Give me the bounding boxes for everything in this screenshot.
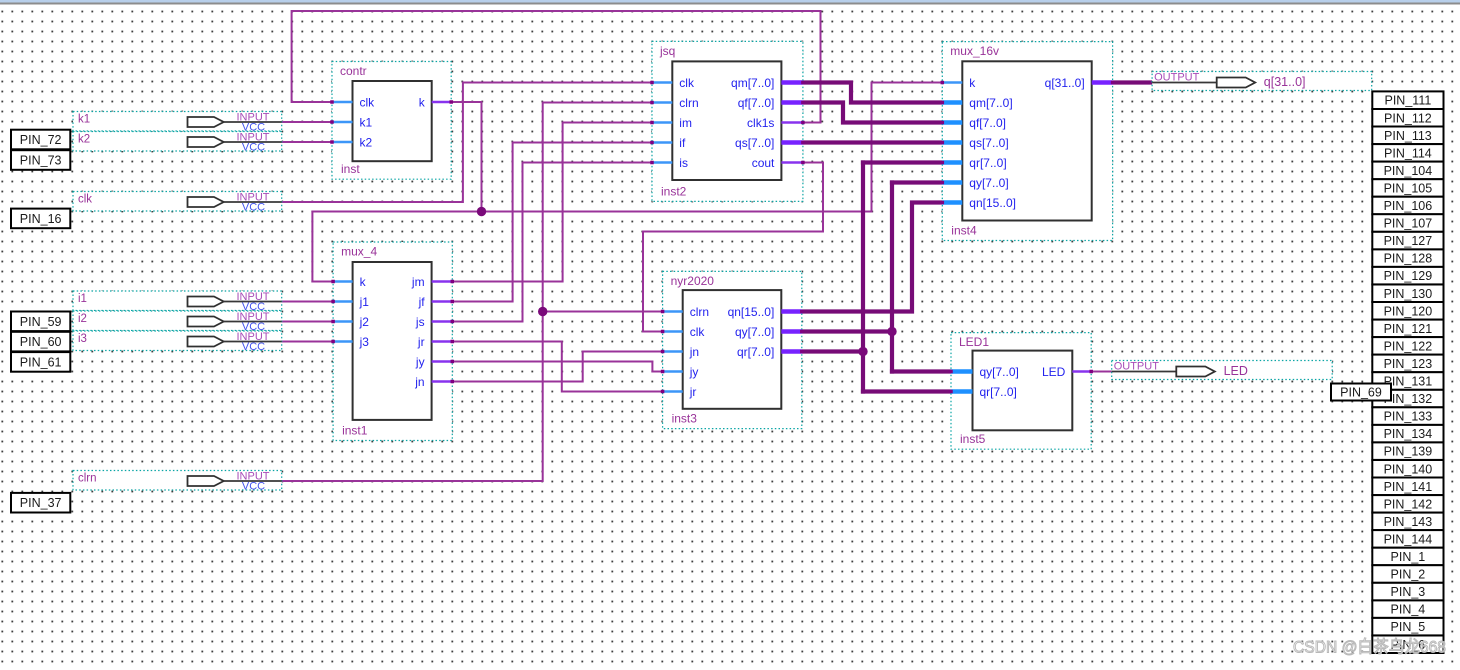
wire net i3: INPUT i3 to mux_4.j3 [282, 341, 333, 343]
pin cout (output) of jsq [781, 161, 803, 163]
svg-text:LED: LED [1224, 364, 1248, 378]
junction on bus qr [858, 347, 867, 356]
pin clrn (input) of jsq [652, 101, 672, 103]
svg-text:PIN_107: PIN_107 [1384, 217, 1433, 231]
svg-text:qf[7..0]: qf[7..0] [738, 96, 775, 110]
svg-text:PIN_142: PIN_142 [1384, 497, 1433, 511]
pin location box PIN_123 [1372, 355, 1443, 373]
pin jr (output) of mux_4 [432, 340, 453, 342]
pin location box PIN_132 [1372, 390, 1443, 408]
input pin symbol k2 [73, 132, 282, 154]
pin location box PIN_2 [1372, 565, 1443, 583]
pin location box PIN_142 [1372, 495, 1443, 512]
svg-text:i1: i1 [78, 293, 87, 305]
pin location box PIN_122 [1372, 337, 1443, 355]
pin jy (input) of nyr2020 [663, 370, 683, 372]
svg-text:PIN_5: PIN_5 [1391, 620, 1426, 634]
svg-text:q[31..0]: q[31..0] [1264, 75, 1306, 89]
svg-text:k1: k1 [78, 114, 90, 126]
window top edge bar [0, 0, 1460, 5]
svg-text:qm[7..0]: qm[7..0] [969, 96, 1012, 110]
svg-text:PIN_112: PIN_112 [1384, 111, 1432, 125]
pin clk (input) of nyr2020 [663, 330, 683, 332]
svg-text:qn[15..0]: qn[15..0] [728, 305, 775, 319]
svg-text:PIN_16: PIN_16 [20, 212, 62, 226]
block contr U:inst (controller) [330, 62, 453, 180]
bus net qs[7..0]: jsq.qs to mux_16v.qs [803, 140, 942, 144]
svg-text:clk: clk [690, 325, 706, 339]
svg-text:j3: j3 [359, 335, 370, 349]
svg-text:PIN_37: PIN_37 [20, 496, 62, 510]
pin location box PIN_73 [11, 150, 70, 170]
svg-text:PIN_69: PIN_69 [1340, 386, 1382, 400]
svg-text:inst: inst [341, 162, 360, 176]
svg-text:jn: jn [689, 345, 699, 359]
svg-text:nyr2020: nyr2020 [671, 274, 715, 288]
pin jn (output) of mux_4 [432, 380, 453, 382]
pin jn (input) of nyr2020 [663, 350, 683, 352]
svg-text:PIN_114: PIN_114 [1384, 146, 1432, 160]
input pin symbol clk [73, 192, 282, 214]
svg-text:jr: jr [689, 385, 697, 399]
pin qr[7..0] (input) of LED1 [951, 389, 973, 394]
svg-text:j2: j2 [359, 315, 370, 329]
svg-text:inst5: inst5 [960, 432, 986, 446]
svg-text:clrn: clrn [690, 305, 709, 319]
wire net jy: mux_4.jy to nyr2020.jy [452, 362, 662, 372]
svg-text:PIN_111: PIN_111 [1385, 94, 1432, 108]
wire net LED: LED1.LED to OUTPUT LED [1091, 371, 1112, 373]
svg-text:VCC: VCC [242, 341, 265, 353]
pin jf (output) of mux_4 [432, 300, 453, 302]
svg-text:k1: k1 [360, 116, 373, 130]
bus net qy[7..0]: nyr2020.qy to mux_16v.qy and LED1.qy [802, 183, 951, 372]
svg-text:VCC: VCC [242, 202, 265, 214]
svg-text:i2: i2 [78, 313, 87, 325]
svg-text:js: js [415, 315, 425, 329]
wire net clrn: INPUT clrn to jsq.clrn and nyr2020.clrn [282, 103, 663, 482]
block jsq U:inst2 [650, 41, 804, 201]
pin k2 (input) of contr [332, 141, 353, 143]
output pin symbol LED [1112, 361, 1333, 380]
pin location box PIN_1 [1372, 548, 1443, 566]
svg-text:qs[7..0]: qs[7..0] [735, 136, 774, 150]
pin location box PIN_131 [1372, 372, 1443, 390]
pin location box PIN_128 [1372, 249, 1443, 267]
pin location box PIN_3 [1372, 583, 1443, 601]
pin qr[7..0] (output) of nyr2020 [781, 349, 802, 354]
input pin symbol i1 [73, 291, 282, 313]
wire net jr: mux_4.jr to nyr2020.jr [452, 342, 662, 392]
svg-text:PIN_4: PIN_4 [1391, 603, 1426, 617]
pin clk (input) of contr [332, 101, 353, 103]
svg-text:PIN_1: PIN_1 [1391, 550, 1426, 564]
pin qn[15..0] (output) of nyr2020 [781, 309, 802, 314]
pin clrn (input) of nyr2020 [663, 310, 683, 312]
svg-text:qy[7..0]: qy[7..0] [735, 325, 774, 339]
svg-text:qm[7..0]: qm[7..0] [731, 76, 774, 90]
svg-text:contr: contr [340, 64, 367, 78]
pin qm[7..0] (output) of jsq [781, 80, 803, 85]
wire net jf: mux_4.jf to jsq.if [452, 143, 652, 302]
svg-text:PIN_3: PIN_3 [1391, 585, 1426, 599]
svg-text:LED1: LED1 [959, 335, 989, 349]
svg-text:jr: jr [417, 335, 425, 349]
svg-text:inst1: inst1 [342, 424, 368, 438]
svg-text:OUTPUT: OUTPUT [1114, 361, 1160, 373]
wire net k1: INPUT k1 to contr.k1 [282, 121, 332, 123]
pin clk1s (output) of jsq [781, 121, 803, 123]
svg-text:PIN_2: PIN_2 [1391, 568, 1426, 582]
input pin symbol clrn [73, 471, 282, 493]
pin location box PIN_16 [11, 209, 70, 229]
pin im (input) of jsq [652, 121, 672, 123]
pin qr[7..0] (input) of mux_16v [942, 160, 962, 165]
svg-text:jsq: jsq [659, 44, 675, 58]
pin location box PIN_111 [1372, 91, 1443, 109]
input pin symbol k1 [73, 112, 282, 134]
pin qy[7..0] (input) of LED1 [951, 369, 973, 374]
wire net k: contr.k to mux_4.k and mux_16v.k [312, 83, 942, 282]
wire net jn: mux_4.jn to nyr2020.jn [452, 352, 662, 382]
svg-text:PIN_61: PIN_61 [20, 355, 62, 369]
svg-text:PIN_60: PIN_60 [20, 335, 62, 349]
pin j3 (input) of mux_4 [333, 340, 353, 342]
pin location box PIN_130 [1372, 285, 1443, 303]
block mux_16v U:inst4 [941, 42, 1115, 241]
svg-text:clk1s: clk1s [747, 116, 774, 130]
svg-text:i3: i3 [78, 333, 87, 345]
bus net qn[15..0]: nyr2020.qn to mux_16v.qn [802, 203, 943, 312]
wire net i1: INPUT i1 to mux_4.j1 [282, 301, 333, 303]
svg-text:PIN_121: PIN_121 [1384, 322, 1433, 336]
bus net qr[7..0]: nyr2020.qr to mux_16v.qr and LED1.qr [802, 163, 951, 392]
svg-text:k2: k2 [360, 136, 373, 150]
pin qy[7..0] (output) of nyr2020 [781, 329, 802, 334]
pin clk (input) of jsq [652, 81, 672, 83]
block mux_4 U:inst1 [331, 242, 454, 441]
bus net qf[7..0]: jsq.qf to mux_16v.qf [803, 103, 942, 123]
wire net k2: INPUT k2 to contr.k2 [282, 141, 332, 143]
pin location box PIN_120 [1372, 302, 1443, 320]
pin location box PIN_139 [1372, 442, 1443, 460]
svg-text:jy: jy [415, 355, 425, 369]
svg-text:PIN_72: PIN_72 [20, 133, 62, 147]
svg-text:inst4: inst4 [951, 224, 977, 238]
svg-text:CSDN @白茶乌龙668: CSDN @白茶乌龙668 [1293, 638, 1446, 657]
svg-text:qr[7..0]: qr[7..0] [737, 345, 774, 359]
pin location box PIN_69 [1331, 384, 1391, 401]
svg-text:PIN_141: PIN_141 [1384, 480, 1433, 494]
svg-text:PIN_128: PIN_128 [1384, 252, 1433, 266]
svg-text:jy: jy [689, 365, 699, 379]
svg-text:PIN_130: PIN_130 [1384, 287, 1433, 301]
svg-text:cout: cout [752, 156, 775, 170]
svg-text:is: is [679, 156, 688, 170]
pin k (output) of contr [432, 101, 452, 103]
pin k (input) of mux_4 [333, 280, 353, 282]
svg-text:PIN_127: PIN_127 [1384, 234, 1433, 248]
pin qf[7..0] (output) of jsq [781, 100, 803, 105]
svg-text:jn: jn [414, 375, 424, 389]
svg-text:k: k [969, 76, 976, 90]
pin location box PIN_121 [1372, 320, 1443, 338]
wire net cout: jsq.cout to nyr2020.clk [643, 163, 823, 332]
pin location box PIN_134 [1372, 425, 1443, 443]
pin location box PIN_144 [1372, 530, 1443, 548]
svg-text:qy[7..0]: qy[7..0] [969, 176, 1008, 190]
svg-text:PIN_134: PIN_134 [1384, 427, 1433, 441]
svg-text:PIN_105: PIN_105 [1384, 181, 1433, 195]
pin location box PIN_106 [1372, 197, 1443, 215]
svg-text:if: if [679, 136, 686, 150]
pin location box PIN_104 [1372, 162, 1443, 180]
pin location box PIN_113 [1372, 127, 1443, 145]
pin is (input) of jsq [652, 161, 672, 163]
junction on bus qy [887, 327, 896, 336]
svg-text:PIN_122: PIN_122 [1384, 339, 1433, 353]
pin location box PIN_129 [1372, 267, 1443, 285]
pin q[31..0] (output) of mux_16v [1092, 80, 1113, 85]
output pin symbol q[31..0] [1152, 72, 1372, 91]
svg-text:qf[7..0]: qf[7..0] [969, 116, 1006, 130]
svg-text:PIN_129: PIN_129 [1384, 269, 1433, 283]
wire net clk1s: jsq.clk1s to contr.clk (top loop) [292, 11, 821, 123]
svg-text:im: im [679, 116, 692, 130]
svg-text:PIN_73: PIN_73 [20, 154, 62, 168]
pin qn[15..0] (input) of mux_16v [942, 200, 962, 205]
svg-text:clrn: clrn [78, 473, 97, 485]
pin location box PIN_4 [1372, 600, 1443, 618]
svg-text:mux_16v: mux_16v [950, 44, 999, 58]
pin location box PIN_127 [1372, 232, 1443, 250]
svg-text:VCC: VCC [242, 481, 265, 493]
input pin symbol i3 [73, 331, 282, 353]
svg-text:k: k [360, 275, 367, 289]
pin location box PIN_107 [1372, 214, 1443, 232]
pin qm[7..0] (input) of mux_16v [942, 100, 962, 105]
svg-text:VCC: VCC [242, 142, 265, 154]
svg-text:clk: clk [78, 194, 92, 206]
junction on net clrn [538, 307, 547, 316]
svg-text:j1: j1 [359, 295, 370, 309]
pin qs[7..0] (output) of jsq [781, 140, 803, 145]
pin location box PIN_61 [11, 352, 70, 372]
pin location box PIN_5 [1372, 618, 1443, 636]
wire net clk: INPUT clk to jsq.clk [282, 83, 653, 203]
svg-text:qy[7..0]: qy[7..0] [980, 365, 1019, 379]
pin j1 (input) of mux_4 [333, 300, 353, 302]
wire net js: mux_4.js to jsq.is [452, 163, 652, 322]
pin location box PIN_105 [1372, 179, 1443, 197]
wire net i2: INPUT i2 to mux_4.j2 [282, 321, 333, 323]
svg-text:PIN_120: PIN_120 [1384, 304, 1433, 318]
svg-text:PIN_123: PIN_123 [1384, 357, 1433, 371]
svg-text:mux_4: mux_4 [341, 245, 377, 259]
svg-text:k: k [419, 96, 426, 110]
pin location box PIN_133 [1372, 407, 1443, 425]
svg-text:clrn: clrn [679, 96, 698, 110]
svg-text:k2: k2 [78, 134, 90, 146]
svg-text:PIN_106: PIN_106 [1384, 199, 1433, 213]
pin location box PIN_140 [1372, 460, 1443, 478]
svg-text:qn[15..0]: qn[15..0] [969, 196, 1016, 210]
block nyr2020 U:inst3 [661, 271, 804, 428]
svg-text:PIN_140: PIN_140 [1384, 462, 1433, 476]
bus net q[31..0]: mux_16v.q to OUTPUT q[31..0] [1113, 80, 1154, 84]
block LED1 U:inst5 [949, 333, 1093, 450]
pin location box PIN_6 [1372, 636, 1443, 654]
pin location box PIN_112 [1372, 109, 1443, 127]
bus net qm[7..0]: jsq.qm to mux_16v.qm [803, 83, 942, 103]
pin location box PIN_141 [1372, 478, 1443, 496]
svg-text:LED: LED [1042, 365, 1066, 379]
pin location box PIN_59 [11, 312, 70, 332]
svg-text:PIN_133: PIN_133 [1384, 410, 1433, 424]
svg-text:inst3: inst3 [672, 412, 698, 426]
svg-text:jm: jm [411, 275, 425, 289]
wire net jm: mux_4.jm to jsq.im [452, 123, 652, 282]
svg-text:clk: clk [679, 76, 695, 90]
pin k1 (input) of contr [332, 121, 353, 123]
pin qs[7..0] (input) of mux_16v [942, 140, 962, 145]
pin jr (input) of nyr2020 [663, 390, 683, 392]
svg-text:qr[7..0]: qr[7..0] [980, 385, 1017, 399]
pin k (input) of mux_16v [942, 81, 962, 83]
pin js (output) of mux_4 [432, 320, 453, 322]
pin qy[7..0] (input) of mux_16v [942, 180, 962, 185]
pin if (input) of jsq [652, 141, 672, 143]
junction on net k [477, 207, 486, 216]
svg-text:PIN_113: PIN_113 [1384, 129, 1432, 143]
pin jm (output) of mux_4 [432, 280, 453, 282]
svg-text:clk: clk [360, 96, 376, 110]
pin LED (output) of LED1 [1072, 370, 1091, 372]
pin j2 (input) of mux_4 [333, 320, 353, 322]
svg-text:inst2: inst2 [661, 184, 687, 198]
pin location box PIN_60 [11, 332, 70, 352]
input pin symbol i2 [73, 311, 282, 333]
svg-text:qr[7..0]: qr[7..0] [969, 156, 1006, 170]
svg-text:PIN_104: PIN_104 [1384, 164, 1433, 178]
pin location box PIN_143 [1372, 513, 1443, 531]
svg-text:PIN_139: PIN_139 [1384, 445, 1433, 459]
svg-text:PIN_144: PIN_144 [1384, 532, 1433, 546]
pin qf[7..0] (input) of mux_16v [942, 120, 962, 125]
pin jy (output) of mux_4 [432, 360, 453, 362]
pin location box PIN_114 [1372, 144, 1443, 162]
pin location box PIN_37 [11, 493, 70, 513]
svg-text:q[31..0]: q[31..0] [1045, 76, 1085, 90]
svg-text:jf: jf [418, 295, 426, 309]
svg-text:PIN_59: PIN_59 [20, 315, 62, 329]
svg-text:OUTPUT: OUTPUT [1154, 72, 1200, 84]
svg-text:PIN_143: PIN_143 [1384, 515, 1433, 529]
pin location box PIN_72 [11, 130, 70, 150]
svg-text:qs[7..0]: qs[7..0] [969, 136, 1008, 150]
